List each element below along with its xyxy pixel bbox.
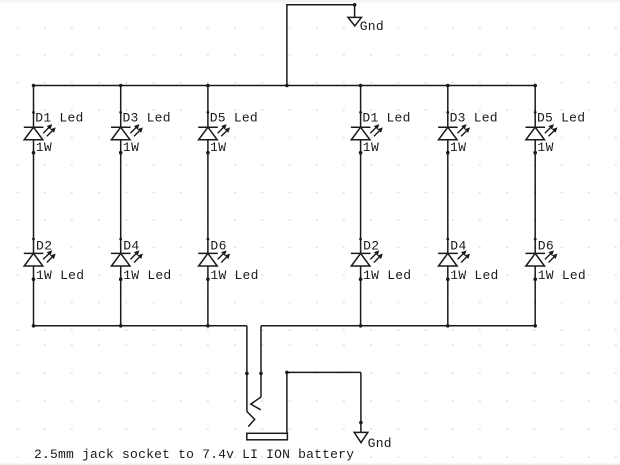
junction on bottom bus at x=448	[446, 324, 450, 328]
wire: vertical branch column 5 (D3/D4 right)	[447, 86, 449, 326]
svg-text:2.5mm jack socket to 7.4v LI I: 2.5mm jack socket to 7.4v LI ION battery	[34, 447, 354, 462]
svg-text:1W: 1W	[363, 140, 379, 155]
junction on top bus at x=34	[32, 84, 36, 88]
svg-text:D2: D2	[36, 239, 52, 254]
pin dot: jack left pin	[245, 372, 249, 376]
svg-text:1W Led: 1W Led	[363, 268, 411, 283]
junction on top bus at x=448	[446, 84, 450, 88]
wire: riser from top bus to Gnd	[287, 5, 355, 86]
wire: vertical branch column 4 (D1/D2 right)	[360, 86, 362, 326]
junction on bottom bus at x=34	[32, 324, 36, 328]
ground symbol (top) triangle	[348, 17, 361, 26]
pin dot: bottom Gnd	[359, 421, 363, 425]
LED D1 (left bank, top row) symbol	[24, 111, 53, 155]
LED D4 (left bank, bottom row) symbol	[111, 238, 140, 281]
svg-text:D6: D6	[210, 239, 226, 254]
jack J1: left pin spring contact	[247, 412, 255, 427]
svg-text:D3 Led: D3 Led	[450, 111, 498, 126]
wire: vertical branch column 1 (D1/D2 left)	[33, 86, 35, 326]
LED D2 (left bank, bottom row) symbol	[24, 238, 53, 281]
svg-text:1W: 1W	[537, 140, 553, 155]
jack J1: barrel/sleeve bar	[247, 433, 288, 440]
svg-text:1W Led: 1W Led	[36, 268, 84, 283]
svg-text:D5 Led: D5 Led	[210, 111, 258, 126]
junction on top bus at x=361	[359, 84, 363, 88]
wire: bottom bus left segment	[34, 325, 247, 327]
LED D5 (left bank, top row) symbol	[198, 111, 227, 155]
svg-text:1W: 1W	[450, 140, 466, 155]
LED D2 (right bank, bottom row) symbol	[351, 238, 380, 281]
LED D3 (right bank, top row) symbol	[438, 111, 467, 155]
pin dot: jack right pin	[259, 372, 263, 376]
wire: vertical branch column 6 (D5/D6 right)	[534, 86, 536, 326]
junction on top bus at x=535	[533, 84, 537, 88]
LED D4 (right bank, bottom row) symbol	[438, 238, 467, 281]
junction on top bus at x=121	[119, 84, 123, 88]
LED D6 (right bank, bottom row) symbol	[526, 238, 555, 281]
junction on bottom bus at x=361	[359, 324, 363, 328]
junction on top bus at x=287	[285, 84, 289, 88]
svg-text:D4: D4	[450, 239, 466, 254]
jack J1: right pin tip contact	[251, 397, 261, 410]
wire: vertical branch column 3 (D5/D6 left)	[207, 86, 209, 326]
LED D6 (left bank, bottom row) symbol	[198, 238, 227, 281]
svg-text:D1 Led: D1 Led	[362, 111, 410, 126]
svg-text:1W Led: 1W Led	[123, 268, 171, 283]
LED D1 (right bank, top row) symbol	[351, 111, 380, 155]
junction on top bus at x=208	[206, 84, 210, 88]
svg-text:1W: 1W	[36, 140, 52, 155]
LED D3 (left bank, top row) symbol	[111, 111, 140, 155]
junction on bottom bus at x=535	[533, 324, 537, 328]
wire: bottom bus right segment	[261, 325, 535, 327]
svg-text:1W Led: 1W Led	[450, 268, 498, 283]
junction on bottom bus at x=121	[119, 324, 123, 328]
svg-text:D1 Led: D1 Led	[35, 111, 83, 126]
svg-text:D6: D6	[538, 239, 554, 254]
junction on bottom bus at x=208	[206, 324, 210, 328]
svg-text:1W: 1W	[210, 140, 226, 155]
wire: jack sleeve up from barrel	[286, 372, 288, 433]
wire: top supply bus	[34, 85, 536, 87]
wire: vertical branch column 2 (D3/D4 left)	[120, 86, 122, 326]
ground symbol (bottom) triangle	[354, 432, 368, 442]
wire: bottom bus to jack right pin	[260, 326, 262, 397]
wire: bottom bus to jack left pin	[246, 326, 248, 412]
svg-text:D3 Led: D3 Led	[123, 111, 171, 126]
svg-text:1W Led: 1W Led	[210, 268, 258, 283]
svg-text:D5 Led: D5 Led	[537, 111, 585, 126]
pin dot: jack sleeve	[285, 371, 289, 375]
svg-text:D2: D2	[363, 239, 379, 254]
LED D5 (right bank, top row) symbol	[526, 111, 555, 155]
svg-text:Gnd: Gnd	[360, 19, 384, 34]
wire: jack sleeve to Gnd (horizontal)	[287, 371, 361, 373]
svg-text:1W Led: 1W Led	[538, 268, 586, 283]
svg-text:D4: D4	[123, 239, 139, 254]
svg-text:Gnd: Gnd	[368, 436, 392, 451]
wire: drop to bottom Gnd	[360, 372, 362, 432]
svg-text:1W: 1W	[123, 140, 139, 155]
junction at top Gnd corner	[353, 3, 357, 7]
